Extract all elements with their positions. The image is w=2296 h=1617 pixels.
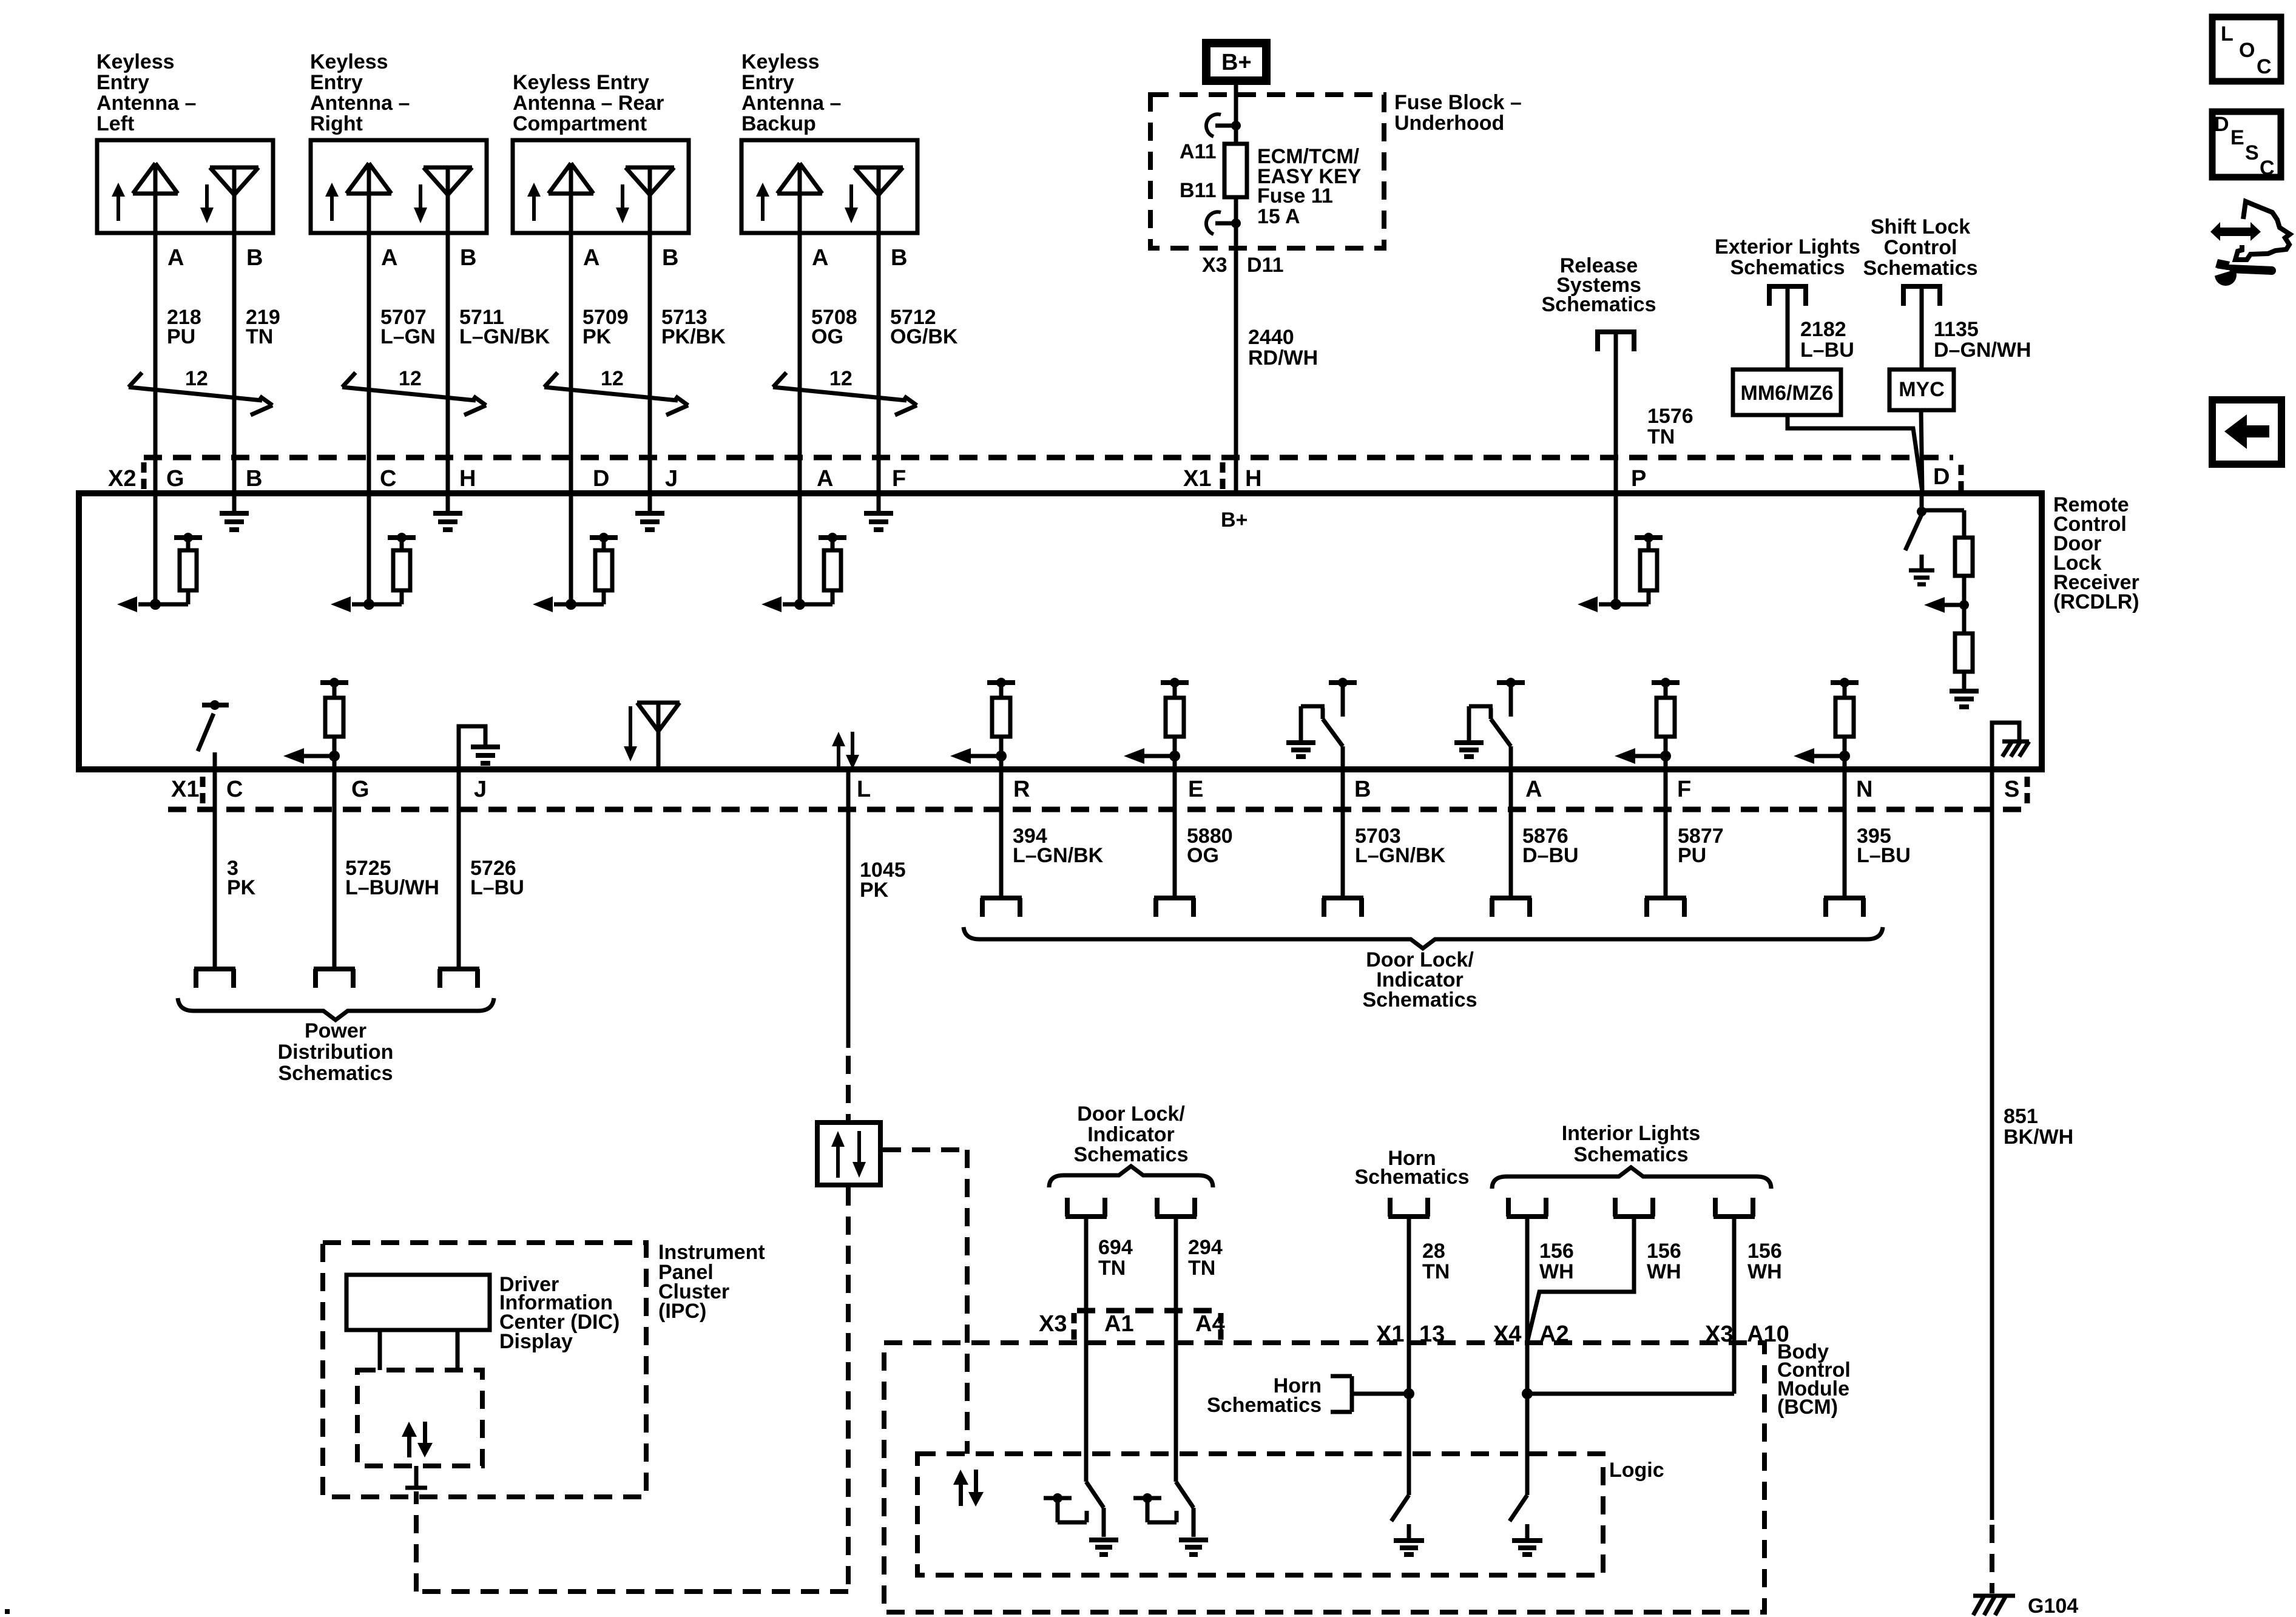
svg-text:L–GN/BK: L–GN/BK	[459, 325, 550, 348]
wire label 2440 RD/WH	[1248, 326, 1318, 370]
svg-text:X1: X1	[1376, 1322, 1404, 1347]
wire label 5708 OG	[811, 306, 857, 348]
X2 X1 connector dashed line	[144, 455, 1953, 461]
switch pin A internal	[1454, 678, 1525, 769]
wire 5726 L-BU	[457, 769, 461, 968]
DIC serial arrows	[402, 1422, 433, 1457]
svg-text:694: 694	[1098, 1236, 1133, 1259]
svg-text:1135: 1135	[1934, 318, 1979, 341]
exterior lights schematics label	[1715, 235, 1860, 279]
svg-text:TN: TN	[1422, 1260, 1450, 1283]
keyless entry antenna right box	[311, 140, 487, 233]
svg-text:H: H	[459, 466, 476, 491]
svg-text:PK: PK	[227, 876, 256, 899]
svg-text:PU: PU	[167, 325, 195, 348]
svg-text:O: O	[2239, 39, 2255, 62]
release systems schematics label	[1542, 254, 1656, 316]
wire 394 L-GN/BK	[999, 769, 1004, 896]
wire antenna4 B	[877, 233, 881, 493]
svg-text:L–GN/BK: L–GN/BK	[1355, 844, 1446, 867]
driver information center label	[499, 1273, 620, 1353]
wire label 1135 D-GN/WH	[1934, 318, 2031, 362]
svg-text:TN: TN	[1188, 1257, 1215, 1280]
svg-text:L–BU: L–BU	[1800, 339, 1854, 362]
svg-text:294: 294	[1188, 1236, 1223, 1259]
svg-text:X1: X1	[171, 777, 199, 802]
svg-text:A: A	[817, 466, 833, 491]
shift lock connector	[1902, 284, 1942, 306]
RCDLR box	[79, 493, 2042, 769]
svg-text:N: N	[1856, 777, 1872, 802]
wire label 5726 L-BU	[470, 857, 524, 899]
wire 851 BK/WH	[1990, 769, 1994, 1520]
svg-text:A11: A11	[1180, 140, 1217, 163]
wire label 395 L-BU	[1857, 825, 1911, 867]
svg-text:R: R	[1013, 777, 1030, 802]
svg-text:TN: TN	[1647, 425, 1675, 448]
connector wire 394	[981, 898, 1022, 917]
connector wire 5880	[1154, 898, 1195, 917]
svg-text:PK: PK	[582, 325, 612, 348]
svg-text:Left: Left	[96, 112, 134, 135]
connector wire 5876	[1490, 898, 1531, 917]
svg-text:Schematics: Schematics	[1363, 988, 1477, 1011]
svg-text:Control: Control	[1884, 236, 1957, 259]
antenna3 receiver channel	[533, 493, 618, 612]
signal ground pin D	[1909, 555, 1934, 584]
svg-text:Keyless: Keyless	[310, 50, 388, 73]
wire 5880 OG	[1173, 769, 1177, 896]
wire label 28 TN	[1422, 1240, 1450, 1283]
svg-text:X3: X3	[1705, 1322, 1733, 1347]
B+ terminal box	[1206, 43, 1266, 81]
svg-text:A4: A4	[1195, 1311, 1225, 1337]
keyless entry antenna backup box	[741, 140, 917, 233]
fuse clip B11	[1206, 212, 1241, 234]
keyless entry antenna rear compartment box	[513, 140, 689, 233]
svg-text:H: H	[1245, 466, 1261, 491]
svg-text:Keyless: Keyless	[96, 50, 175, 73]
X3 mini tick right	[1218, 1313, 1224, 1340]
svg-text:G: G	[351, 777, 370, 802]
svg-text:(BCM): (BCM)	[1777, 1396, 1838, 1419]
wire label 5712 OG/BK	[890, 306, 958, 348]
wire label 851 BK/WH	[2004, 1105, 2073, 1149]
svg-text:L–GN/BK: L–GN/BK	[1013, 844, 1104, 867]
serial data interface box	[817, 1122, 880, 1185]
wire 156 WH first	[1525, 1218, 1530, 1495]
wire 5725 L-BU/WH	[333, 769, 337, 968]
svg-text:Backup: Backup	[741, 112, 816, 135]
svg-text:OG: OG	[1187, 844, 1219, 867]
connector wire 5725	[314, 969, 355, 988]
pin P receiver channel	[1578, 493, 1663, 612]
resistor chain pin D upper	[1922, 510, 1973, 605]
antenna symbol internal	[624, 703, 680, 769]
resistor chain pin D lower	[1955, 605, 1973, 689]
svg-text:A: A	[167, 245, 184, 271]
shift lock control schematics label	[1863, 215, 1978, 280]
svg-text:D11: D11	[1247, 254, 1284, 277]
horn schematics label upper	[1355, 1147, 1470, 1189]
svg-text:L–BU: L–BU	[1857, 844, 1911, 867]
svg-text:B+: B+	[1221, 508, 1248, 532]
wire antenna3 A	[569, 233, 573, 493]
wire label 218 PU	[167, 306, 201, 348]
wire 1135 D-GN/WH	[1920, 284, 1924, 370]
svg-text:Logic: Logic	[1609, 1459, 1664, 1482]
svg-text:Antenna –: Antenna –	[310, 92, 410, 115]
instrument panel cluster label	[658, 1241, 765, 1323]
connector wire 28	[1388, 1198, 1430, 1217]
twisted pair 4	[773, 367, 917, 415]
svg-text:D–GN/WH: D–GN/WH	[1934, 339, 2031, 362]
switch pin B internal	[1286, 678, 1357, 769]
wire antenna2 B	[446, 233, 450, 493]
wire MYC to pin D	[1921, 410, 1922, 491]
svg-text:Entry: Entry	[741, 71, 794, 94]
wire label 5709 PK	[582, 306, 629, 348]
body control module dashed box	[884, 1343, 1764, 1612]
keyless entry antenna left box	[97, 140, 273, 233]
X3 mini tick left	[1072, 1313, 1077, 1340]
svg-text:Antenna –: Antenna –	[741, 92, 841, 115]
exterior lights connector	[1768, 284, 1808, 306]
svg-text:G: G	[166, 466, 184, 491]
power distribution brace	[178, 998, 494, 1020]
svg-text:A10: A10	[1747, 1322, 1789, 1347]
wire 2440 RD/WH	[1234, 248, 1238, 493]
switch interior lights internal	[1510, 1495, 1542, 1555]
wire label 5725 L-BU/WH	[345, 857, 439, 899]
antenna4 receiver channel	[761, 493, 846, 612]
wire label 3 PK	[227, 857, 256, 899]
door lock indicator brace bottom	[964, 927, 1883, 948]
wire antenna1 B	[232, 233, 237, 493]
svg-text:J: J	[474, 777, 487, 802]
svg-text:C: C	[380, 466, 396, 491]
svg-text:D: D	[1933, 464, 1950, 490]
wire 851 dashed	[1990, 1525, 1994, 1593]
svg-text:PK: PK	[860, 879, 889, 902]
svg-text:Door Lock/: Door Lock/	[1077, 1102, 1185, 1126]
DESC icon box	[2212, 112, 2281, 180]
fuse clip A11	[1206, 114, 1241, 137]
wire 2182 L-BU	[1786, 284, 1790, 370]
svg-text:Display: Display	[499, 1330, 573, 1353]
svg-text:A1: A1	[1104, 1311, 1134, 1337]
svg-text:L: L	[857, 777, 871, 802]
svg-text:G104: G104	[2028, 1595, 2078, 1617]
svg-text:Schematics: Schematics	[279, 1062, 393, 1085]
chassis ground pin S internal	[1992, 723, 2029, 769]
wire 3 PK	[213, 769, 217, 968]
MYC box	[1889, 370, 1954, 410]
fuse block underhood dashed box	[1150, 95, 1384, 248]
svg-text:X1: X1	[1183, 466, 1211, 491]
antenna2 receiver channel	[331, 493, 416, 612]
X1 bottom terminator tick	[200, 777, 206, 805]
wire 1045 PK dashed	[846, 1056, 851, 1122]
wire 1045 PK	[846, 769, 851, 1048]
wire 28 TN	[1407, 1218, 1411, 1495]
svg-text:156: 156	[1747, 1240, 1782, 1263]
svg-text:Shift Lock: Shift Lock	[1871, 215, 1970, 238]
svg-text:B: B	[662, 245, 678, 271]
keyless entry antenna rear compartment label	[513, 71, 664, 135]
DIC serial stub	[405, 1466, 427, 1488]
svg-text:E: E	[1188, 777, 1203, 802]
svg-text:B11: B11	[1180, 179, 1217, 202]
svg-text:C: C	[226, 777, 243, 802]
wire 1576 TN	[1614, 329, 1618, 493]
svg-text:B: B	[891, 245, 907, 271]
wire MM6 to pin D	[1788, 415, 1922, 491]
svg-text:OG/BK: OG/BK	[890, 325, 958, 348]
resistor channel pin N	[1794, 678, 1859, 769]
svg-text:F: F	[1677, 777, 1691, 802]
svg-text:C: C	[2257, 55, 2272, 78]
svg-text:Interior Lights: Interior Lights	[1562, 1122, 1701, 1145]
antenna1 ground	[220, 493, 249, 530]
wire label 5876 D-BU	[1522, 825, 1579, 867]
svg-text:Schematics: Schematics	[1207, 1394, 1322, 1417]
svg-text:Compartment: Compartment	[513, 112, 647, 135]
switch 694 internal	[1044, 1482, 1118, 1555]
svg-text:Keyless Entry: Keyless Entry	[513, 71, 649, 94]
RCDLR label	[2053, 493, 2139, 613]
fuse block underhood label	[1394, 91, 1522, 135]
BCM pin label X4 A2	[1493, 1322, 1569, 1347]
resistor channel pin R	[950, 678, 1015, 769]
wire label 156 WH second	[1647, 1240, 1681, 1283]
fuse ECM/TCM/EASY KEY Fuse 11 15A	[1224, 144, 1247, 197]
antenna3 ground	[635, 493, 664, 530]
wire 294 TN	[1174, 1218, 1178, 1482]
svg-text:A: A	[812, 245, 828, 271]
svg-text:X4: X4	[1493, 1322, 1521, 1347]
wire label 5713 PK/BK	[661, 306, 726, 348]
connector wire 156 second	[1613, 1198, 1655, 1217]
door lock indicator brace top	[1049, 1166, 1213, 1187]
wire label 5877 PU	[1678, 825, 1724, 867]
junction dot 156 wire	[1522, 1388, 1533, 1399]
wire 156 WH second	[1527, 1218, 1634, 1342]
wire label 5707 L-GN	[380, 306, 436, 348]
svg-text:13: 13	[1419, 1322, 1445, 1347]
svg-text:(IPC): (IPC)	[658, 1300, 706, 1323]
MM6/MZ6 box	[1733, 370, 1841, 415]
connector label X3 A1 A4	[1039, 1311, 1225, 1337]
X2 terminator tick	[141, 462, 147, 490]
svg-text:E: E	[2230, 126, 2244, 149]
wire antenna3 B	[648, 233, 652, 493]
horn schematics internal connector	[1207, 1374, 1409, 1417]
svg-text:X2: X2	[108, 466, 136, 491]
wire label 156 WH third	[1747, 1240, 1782, 1283]
svg-text:Schematics: Schematics	[1355, 1166, 1470, 1189]
connector wire 156 first	[1507, 1198, 1548, 1217]
interior lights brace	[1492, 1167, 1771, 1189]
double arrow icon	[2210, 222, 2261, 241]
svg-text:Power: Power	[305, 1019, 366, 1042]
serial data dashed to IPC	[416, 1187, 848, 1592]
wire antenna2 A	[367, 233, 371, 493]
connector wire 156 third	[1714, 1198, 1755, 1217]
svg-text:L–BU/WH: L–BU/WH	[345, 876, 439, 899]
switch pin C	[198, 700, 229, 769]
svg-text:28: 28	[1422, 1240, 1445, 1263]
svg-text:L–GN: L–GN	[380, 325, 436, 348]
resistor channel pin E	[1124, 678, 1189, 769]
svg-text:B+: B+	[1221, 50, 1252, 75]
switch horn internal	[1391, 1495, 1424, 1555]
svg-text:WH: WH	[1647, 1260, 1681, 1283]
svg-text:L–BU: L–BU	[470, 876, 524, 899]
junction dot horn wire	[1403, 1388, 1414, 1399]
back arrow icon box	[2212, 400, 2281, 464]
resistor channel pin F	[1615, 678, 1680, 769]
svg-text:F: F	[892, 466, 906, 491]
wire A10 internal	[1527, 1343, 1734, 1394]
connector wire 5703	[1322, 898, 1363, 917]
wire label 694 TN	[1098, 1236, 1133, 1280]
door lock indicator schematics label top	[1074, 1102, 1189, 1166]
DIC display legs	[380, 1330, 458, 1370]
X1 bottom connector dashed line	[168, 807, 2026, 812]
svg-text:Underhood: Underhood	[1394, 112, 1504, 135]
instrument panel cluster dashed box	[323, 1243, 646, 1497]
svg-text:Schematics: Schematics	[1863, 257, 1978, 280]
svg-text:RD/WH: RD/WH	[1248, 346, 1318, 370]
svg-text:Distribution: Distribution	[278, 1041, 394, 1064]
panel outline icon	[2235, 201, 2290, 260]
wire 5876 D-BU	[1509, 769, 1513, 896]
ground G104	[1973, 1595, 2078, 1617]
wire label 219 TN	[246, 306, 280, 348]
keyless entry antenna left label	[96, 50, 196, 135]
svg-text:Exterior Lights: Exterior Lights	[1715, 235, 1860, 258]
BCM pin label X1 13	[1376, 1322, 1445, 1347]
wire 5877 PU	[1664, 769, 1668, 896]
svg-text:D–BU: D–BU	[1522, 844, 1579, 867]
resistor channel pin G	[283, 678, 348, 769]
arrow pin D	[1924, 597, 1964, 613]
svg-text:L: L	[2221, 22, 2234, 46]
svg-text:Schematics: Schematics	[1542, 293, 1656, 316]
svg-text:J: J	[665, 466, 678, 491]
keyless entry antenna right label	[310, 50, 410, 135]
serial data arrows pin L	[832, 732, 859, 769]
svg-text:A: A	[381, 245, 397, 271]
release systems connector	[1596, 329, 1636, 351]
svg-text:A2: A2	[1539, 1322, 1569, 1347]
wire 156 WH third	[1732, 1218, 1737, 1394]
wire label 2182 L-BU	[1800, 318, 1854, 362]
svg-text:X3: X3	[1039, 1311, 1067, 1337]
svg-text:156: 156	[1647, 1240, 1681, 1263]
svg-text:B: B	[246, 245, 263, 271]
wire label 5703 L-GN/BK	[1355, 825, 1446, 867]
power distribution schematics label	[278, 1019, 394, 1085]
driver information center display box	[346, 1275, 490, 1330]
wire label 5711 L-GN/BK	[459, 306, 550, 348]
DIC module dashed box	[357, 1370, 482, 1466]
svg-text:Right: Right	[310, 112, 363, 135]
wire label 294 TN	[1188, 1236, 1223, 1280]
svg-text:C: C	[2260, 157, 2275, 180]
twisted pair 2	[342, 367, 486, 415]
twisted pair 1	[129, 367, 272, 415]
svg-text:WH: WH	[1747, 1260, 1782, 1283]
svg-text:D: D	[593, 466, 609, 491]
svg-text:TN: TN	[1098, 1257, 1126, 1280]
svg-text:TN: TN	[246, 325, 273, 348]
svg-text:MM6/MZ6: MM6/MZ6	[1741, 382, 1834, 405]
svg-text:B: B	[460, 245, 476, 271]
switch 294 internal	[1133, 1482, 1208, 1555]
svg-text:B: B	[246, 466, 262, 491]
svg-text:Keyless: Keyless	[741, 50, 820, 73]
wire label 156 WH first	[1539, 1240, 1574, 1283]
door lock indicator schematics label bottom	[1363, 948, 1477, 1011]
connector wire 395	[1824, 898, 1865, 917]
BCM pin label X3 A10	[1705, 1322, 1789, 1347]
svg-text:1576: 1576	[1647, 405, 1693, 428]
pin S terminator tick	[2025, 777, 2030, 805]
ground pin D chain	[1950, 691, 1979, 707]
wire B+ to fuse	[1234, 85, 1238, 144]
connector wire 294	[1155, 1198, 1197, 1217]
wire label 1045 PK	[860, 859, 906, 902]
connector wire 5726	[438, 969, 479, 988]
svg-text:A: A	[1525, 777, 1542, 802]
wire 5703 L-GN/BK	[1341, 769, 1345, 896]
wire label 394 L-GN/BK	[1013, 825, 1104, 867]
svg-text:(RCDLR): (RCDLR)	[2053, 590, 2139, 613]
wire 395 L-BU	[1843, 769, 1847, 896]
LOC icon box	[2212, 17, 2281, 81]
serial data dashed to logic	[883, 1150, 967, 1454]
pin D junction dot	[1917, 507, 1926, 516]
svg-text:BK/WH: BK/WH	[2004, 1126, 2073, 1149]
logic serial arrows	[953, 1470, 984, 1507]
svg-text:S: S	[2004, 777, 2019, 802]
wrench icon	[2207, 259, 2276, 286]
wire fuse lower	[1234, 197, 1238, 248]
connector label X3 D11	[1202, 254, 1284, 277]
logic dashed box	[917, 1454, 1603, 1575]
internal ground pin J	[459, 726, 500, 769]
X3 mini connector row	[1077, 1308, 1220, 1314]
svg-text:Entry: Entry	[310, 71, 363, 94]
body control module label	[1777, 1340, 1851, 1419]
svg-text:X3: X3	[1202, 254, 1227, 277]
svg-text:2182: 2182	[1800, 318, 1846, 341]
connector wire 5877	[1645, 898, 1686, 917]
wire antenna1 A	[154, 233, 158, 493]
X1 terminator tick	[1220, 462, 1226, 490]
svg-text:P: P	[1631, 466, 1646, 491]
svg-text:Entry: Entry	[96, 71, 149, 94]
connector wire 3	[194, 969, 235, 988]
wire 694 TN	[1084, 1218, 1089, 1482]
antenna1 receiver channel	[117, 493, 202, 612]
antenna2 ground	[433, 493, 462, 530]
fuse label	[1257, 145, 1362, 228]
wire label 1576 TN	[1647, 405, 1693, 448]
svg-text:Antenna –: Antenna –	[96, 92, 196, 115]
